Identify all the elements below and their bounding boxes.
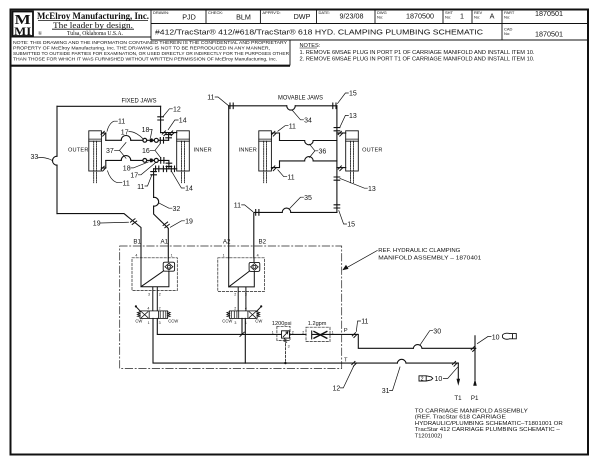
- svg-text:11: 11: [118, 118, 125, 125]
- svg-text:13: 13: [368, 186, 376, 193]
- block2 internal piping: [229, 258, 255, 311]
- fitting ticks 14 upper a: [162, 131, 167, 136]
- label 13 top: [340, 113, 357, 128]
- svg-text:TracStar 412 CARRIAGE PLUMB: TracStar 412 CARRIAGE PLUMBING SCHEMATIC…: [415, 427, 561, 433]
- fitting 19 left on diagonal: [130, 218, 137, 225]
- fitting ticks T exit: [352, 361, 357, 366]
- svg-text:P1: P1: [471, 395, 479, 402]
- fitting ticks on drop: [166, 135, 172, 138]
- directional valve 1 (CW/CCW lever valve): [135, 305, 171, 318]
- svg-text:4: 4: [135, 253, 137, 257]
- hose arc 37b: [121, 156, 131, 161]
- fitting ticks on A1 drop top: [151, 172, 157, 175]
- wire: valve2 to P rail: [241, 318, 243, 334]
- junction ticks at P1 branch: [471, 347, 476, 352]
- svg-text:MANIFOLD ASSEMBLY – 1870401: MANIFOLD ASSEMBLY – 1870401: [378, 255, 481, 261]
- svg-text:HYDRAULIC/PLUMBING SCHEMATIC–: HYDRAULIC/PLUMBING SCHEMATIC–T1801001 OR: [415, 421, 563, 427]
- svg-text:1870500: 1870500: [406, 11, 434, 20]
- fitting ticks inner bottom: [272, 166, 277, 171]
- svg-text:Tulsa, Oklahoma U.S.A.: Tulsa, Oklahoma U.S.A.: [67, 30, 123, 37]
- svg-text:35: 35: [304, 195, 312, 202]
- fitting ticks outer top: [101, 131, 106, 136]
- hose arc 33: [53, 156, 58, 165]
- label 14 lower: [172, 172, 193, 193]
- drop from y132.6 to upper wire: [168, 133, 170, 141]
- svg-text:PJD: PJD: [182, 13, 196, 22]
- svg-text:1: 1: [223, 253, 225, 257]
- wire: P1 leg with up arrow: [474, 348, 476, 379]
- hose arc 34 (bump down): [287, 106, 296, 110]
- title row fields: [153, 10, 515, 36]
- block1 internal piping: [141, 258, 169, 311]
- bottom reference text: [415, 408, 563, 439]
- svg-text:A2: A2: [223, 238, 231, 245]
- wire: loop 33 left edge with hose arc: [56, 106, 58, 213]
- label 12: [163, 107, 181, 117]
- svg-text:18: 18: [142, 127, 150, 134]
- svg-text:15: 15: [347, 222, 355, 229]
- label 11 P-exit: [356, 319, 368, 332]
- svg-text:NOTE: THIS DRAWING AND THE INF: NOTE: THIS DRAWING AND THE INFORMATION C…: [13, 40, 288, 46]
- svg-text:No:: No:: [377, 14, 383, 19]
- port stub fixed-outer bottom: [101, 161, 105, 168]
- svg-text:BLM: BLM: [236, 13, 251, 22]
- wire: right vertical (x 336.9) top loop to bottom loop: [336, 106, 338, 213]
- svg-text:3: 3: [159, 321, 161, 325]
- wire: loop 33 bottom edge to B1: [57, 214, 141, 258]
- quick disconnect lower: [143, 158, 158, 162]
- valve block 2 dashed outline: [218, 258, 265, 292]
- cylinder fixed outer: [89, 131, 102, 183]
- svg-text:B1: B1: [133, 238, 141, 245]
- wire: T1 leg with down arrow: [457, 363, 459, 379]
- fitting ticks bottom-left corner: [256, 210, 259, 216]
- block1 port numbers: [135, 253, 172, 296]
- manifold boundary dash-dot box: [120, 246, 342, 369]
- svg-text:3: 3: [288, 344, 290, 348]
- stub up item 10: [474, 336, 476, 349]
- plug glyph (2) 10 with leader: [419, 367, 458, 383]
- fitting ticks at top-left corner: [230, 103, 233, 109]
- svg-text:A1: A1: [161, 238, 169, 245]
- svg-text:T: T: [344, 357, 348, 363]
- svg-text:16: 16: [142, 148, 150, 155]
- fitting ticks outer-mov top: [338, 131, 343, 136]
- svg-text:CW: CW: [135, 319, 142, 324]
- wire: A2 drop (x 228.7): [228, 106, 230, 258]
- block2 pilot check valve: [249, 262, 260, 271]
- svg-text:3: 3: [234, 321, 236, 325]
- label 16: [142, 143, 161, 157]
- upper wire fixed (y 140.3) with hose arc 37a: [106, 139, 169, 141]
- fitting ticks inner top: [272, 131, 277, 136]
- svg-text:CCW: CCW: [168, 319, 178, 324]
- svg-text:No:: No:: [474, 14, 480, 19]
- lower middle wire movable with hose arc 36b (bump up): [280, 160, 337, 162]
- svg-text:(REF. TracStar 618 CARRIAGE: (REF. TracStar 618 CARRIAGE: [415, 415, 506, 421]
- svg-text:CHECK:: CHECK:: [208, 10, 223, 15]
- svg-text:OUTER: OUTER: [362, 148, 383, 154]
- svg-text:The leader by design.: The leader by design.: [53, 20, 133, 30]
- svg-text:32: 32: [173, 206, 181, 213]
- svg-text:P: P: [344, 328, 348, 334]
- svg-text:CCW: CCW: [222, 319, 232, 324]
- TITLEBLOCK: [11, 10, 589, 66]
- label 17 upper: [121, 130, 143, 139]
- svg-text:No:: No:: [504, 14, 510, 19]
- svg-text:1: 1: [460, 11, 464, 20]
- svg-text:2: 2: [234, 306, 236, 310]
- label 33: [31, 154, 53, 161]
- svg-text:12: 12: [173, 107, 181, 114]
- label 11 bottom-left: [234, 203, 253, 212]
- cylinder fixed inner: [177, 131, 190, 183]
- hose arc 31: [397, 359, 406, 363]
- svg-text:3: 3: [148, 293, 150, 297]
- junction tick valve2-P: [240, 332, 244, 336]
- fitting ticks on drop of lower wire: [166, 163, 172, 166]
- wire: valve1 to T rail: [153, 318, 342, 363]
- hose arc 35 (bump up): [282, 208, 291, 212]
- company logo MMI: [13, 12, 34, 38]
- label 35: [290, 195, 312, 209]
- label 30: [420, 328, 441, 345]
- wire: A1 drop with hose arc 32 and diagonal: [154, 169, 169, 258]
- svg-text:SUBMITTED TO OUTSIDE PARTIES F: SUBMITTED TO OUTSIDE PARTIES FOR EXAMINA…: [13, 51, 290, 57]
- svg-text:No:: No:: [445, 14, 451, 19]
- svg-text:1. REMOVE 6MSAE PLUG IN P: 1. REMOVE 6MSAE PLUG IN PORT P1 OF CARRI…: [300, 50, 535, 56]
- wire: loop 33 top edge: [57, 105, 161, 107]
- svg-text:19: 19: [185, 218, 193, 225]
- svg-text:T1201002): T1201002): [415, 434, 443, 440]
- port stub movable-outer bottom: [337, 167, 346, 169]
- svg-text:A: A: [490, 11, 495, 20]
- fitting ticks outer bottom: [101, 166, 106, 171]
- svg-text:2: 2: [234, 293, 236, 297]
- label 19 left: [93, 221, 129, 228]
- valve block 1 dashed outline: [132, 258, 177, 291]
- svg-text:THAN THOSE FOR WHICH IT WAS FU: THAN THOSE FOR WHICH IT WAS FURNISHED WI…: [13, 57, 277, 63]
- svg-text:MOVABLE JAWS: MOVABLE JAWS: [278, 95, 323, 102]
- label 10 top with leader: [477, 334, 499, 343]
- label 11 inner-bottom: [278, 170, 295, 182]
- wire: horizontal into inner-bottom port (y 168.8): [154, 168, 177, 170]
- flow control 1.2gpm: [302, 321, 333, 342]
- svg-text:10: 10: [435, 376, 443, 383]
- fitting ticks 13 top: [334, 128, 340, 131]
- hose arc 36b: [305, 157, 314, 161]
- svg-text:#412/TracStar® 412/#618/TracSt: #412/TracStar® 412/#618/TracStar® 618 HY…: [155, 28, 484, 37]
- svg-text:11: 11: [289, 123, 296, 130]
- svg-text:4: 4: [147, 306, 149, 310]
- fitting ticks lower wire: [161, 158, 164, 164]
- label 11 top-left: [207, 95, 228, 106]
- port stub movable-inner bottom: [271, 161, 279, 168]
- svg-text:FIXED JAWS: FIXED JAWS: [122, 98, 157, 105]
- label 37: [106, 143, 126, 159]
- svg-text:®: ®: [38, 30, 42, 37]
- company name: [37, 11, 149, 37]
- svg-text:2: 2: [302, 330, 304, 334]
- svg-text:1: 1: [272, 331, 274, 335]
- svg-text:36: 36: [319, 149, 327, 156]
- svg-text:30: 30: [433, 328, 441, 335]
- fitting ticks outer-mov bottom: [338, 166, 343, 171]
- svg-text:1870501: 1870501: [535, 9, 563, 18]
- block1 pilot check valve: [163, 262, 174, 271]
- quick disconnect upper (items 17/18): [143, 138, 158, 142]
- svg-text:14: 14: [185, 186, 193, 193]
- upper middle wire movable with hose arc 36a (bump down): [280, 140, 337, 142]
- svg-text:4: 4: [245, 306, 247, 310]
- svg-text:19: 19: [93, 221, 101, 228]
- label 15 bottom: [339, 211, 355, 229]
- label 32: [159, 203, 181, 213]
- port stub movable-outer top: [337, 132, 346, 134]
- valve2 port numbers: [234, 306, 247, 324]
- svg-text:PROPERTY OF McElroy Manufactur: PROPERTY OF McElroy Manufacturing, Inc. …: [13, 46, 270, 52]
- svg-text:17: 17: [121, 130, 129, 137]
- svg-text:11: 11: [207, 95, 214, 102]
- svg-text:11: 11: [361, 319, 368, 326]
- REF leader arrow: [342, 251, 377, 271]
- svg-text:MI: MI: [14, 24, 31, 38]
- relief valve 1200psi: [272, 321, 294, 364]
- label 34: [293, 111, 312, 125]
- svg-text:DATE:: DATE:: [319, 10, 330, 15]
- label 31: [382, 367, 400, 395]
- fitting ticks upper wire: [160, 138, 163, 144]
- label 17 lower: [130, 163, 155, 180]
- svg-text:1: 1: [171, 253, 173, 257]
- svg-text:APPRV'D:: APPRV'D:: [262, 10, 280, 15]
- svg-text:11: 11: [234, 203, 241, 210]
- label 36: [310, 144, 327, 157]
- cylinder movable outer: [346, 131, 359, 183]
- plug glyph top: [502, 333, 516, 339]
- fitting ticks 15 top: [333, 103, 336, 109]
- fitting ticks lower-horiz a: [156, 166, 159, 172]
- svg-text:15: 15: [349, 91, 357, 98]
- label 11 a1-drop: [137, 175, 152, 191]
- label 18 lower: [123, 162, 149, 173]
- fitting ticks 13 bottom: [334, 177, 340, 180]
- fitting ticks lower-horiz b: [163, 166, 166, 172]
- label 19 right: [170, 218, 193, 227]
- svg-text:37: 37: [106, 148, 114, 155]
- svg-text:13: 13: [349, 113, 357, 120]
- svg-text:INNER: INNER: [239, 148, 257, 154]
- svg-text:INNER: INNER: [194, 148, 212, 154]
- svg-text:DRAWN:: DRAWN:: [153, 10, 169, 15]
- wire: feed 12 vertical from loop top: [160, 106, 162, 132]
- block2 port numbers: [223, 253, 259, 296]
- svg-text:11: 11: [287, 174, 294, 181]
- label 13 bottom: [340, 178, 376, 192]
- label 12 T-exit: [333, 367, 354, 393]
- wire: relief to flow control: [290, 333, 307, 335]
- svg-text:11: 11: [137, 184, 144, 191]
- svg-text:31: 31: [382, 388, 390, 395]
- svg-text:2: 2: [292, 330, 294, 334]
- label 15 top: [338, 91, 357, 104]
- svg-text:11: 11: [123, 180, 130, 187]
- fitting ticks 14 upper b: [170, 131, 175, 136]
- svg-text:12: 12: [333, 386, 341, 393]
- wire: horizontal into inner-top port (y 132.6): [161, 132, 177, 134]
- label 11 inner-top: [278, 123, 296, 131]
- wire: P rail exit: [312, 334, 475, 348]
- svg-text:2: 2: [421, 377, 424, 383]
- svg-text:No:: No:: [504, 31, 510, 36]
- svg-text:1870501: 1870501: [535, 29, 563, 38]
- fitting ticks P exit: [352, 333, 357, 338]
- wire: movable top loop with hose arc 34: [229, 105, 337, 107]
- svg-text:4: 4: [257, 253, 259, 257]
- lower wire fixed (y 160.4) with hose arc 37b: [106, 160, 169, 168]
- wire: valve1 to P rail: [157, 318, 281, 334]
- svg-text:T1: T1: [454, 395, 462, 402]
- label 11 outer-top: [107, 118, 125, 131]
- svg-text:CW: CW: [255, 319, 262, 324]
- svg-text:33: 33: [31, 154, 39, 161]
- directional valve 2 (mirrored): [227, 305, 263, 318]
- svg-text:9/23/08: 9/23/08: [340, 11, 364, 20]
- svg-text:2: 2: [159, 293, 161, 297]
- svg-text:B2: B2: [259, 238, 267, 245]
- svg-text:2. REMOVE 6MSAE PLUG IN P: 2. REMOVE 6MSAE PLUG IN PORT T1 OF CARRI…: [300, 57, 535, 63]
- wire: movable bottom loop with hose arc 35: [254, 212, 337, 257]
- svg-text:10: 10: [492, 334, 500, 341]
- fitting ticks 15 bottom: [334, 205, 340, 208]
- svg-text:1.2gpm: 1.2gpm: [308, 321, 327, 327]
- svg-text:17: 17: [130, 173, 138, 180]
- cylinder movable inner: [259, 131, 272, 183]
- notes list: [300, 43, 535, 63]
- wire: T rail exit: [342, 362, 459, 364]
- label 14 upper: [168, 118, 186, 130]
- hose arc 36a: [305, 141, 314, 145]
- valve1 port numbers: [147, 306, 160, 324]
- fitting ticks 12: [158, 117, 164, 120]
- hose arc 37a: [121, 135, 131, 140]
- fitting ticks T corner: [452, 361, 457, 366]
- svg-text:1: 1: [148, 321, 150, 325]
- label 11 outer-bottom: [108, 171, 130, 188]
- fitting 19 right on diagonal: [163, 222, 170, 229]
- fitting ticks lower-horiz c: [171, 166, 174, 172]
- port stub movable-inner top: [271, 133, 279, 141]
- svg-text:REF. HYDRAULIC CLAMPING: REF. HYDRAULIC CLAMPING: [378, 248, 460, 254]
- port stub fixed-outer top: [101, 133, 105, 140]
- label 18 upper: [142, 127, 153, 138]
- svg-text:TO CARRIAGE MANIFOLD ASSEMB: TO CARRIAGE MANIFOLD ASSEMBLY: [415, 408, 528, 414]
- wire: valve2 to T rail: [244, 318, 246, 363]
- svg-text:14: 14: [179, 118, 187, 125]
- svg-text:34: 34: [304, 117, 312, 124]
- hose arc 32: [154, 197, 159, 206]
- svg-text:1: 1: [332, 330, 334, 334]
- hose arc 30: [413, 345, 422, 349]
- svg-text:3: 3: [245, 293, 247, 297]
- proprietary note: [13, 40, 290, 63]
- svg-text:2: 2: [159, 306, 161, 310]
- svg-text:OUTER: OUTER: [68, 148, 89, 154]
- svg-text:DWP: DWP: [294, 12, 311, 21]
